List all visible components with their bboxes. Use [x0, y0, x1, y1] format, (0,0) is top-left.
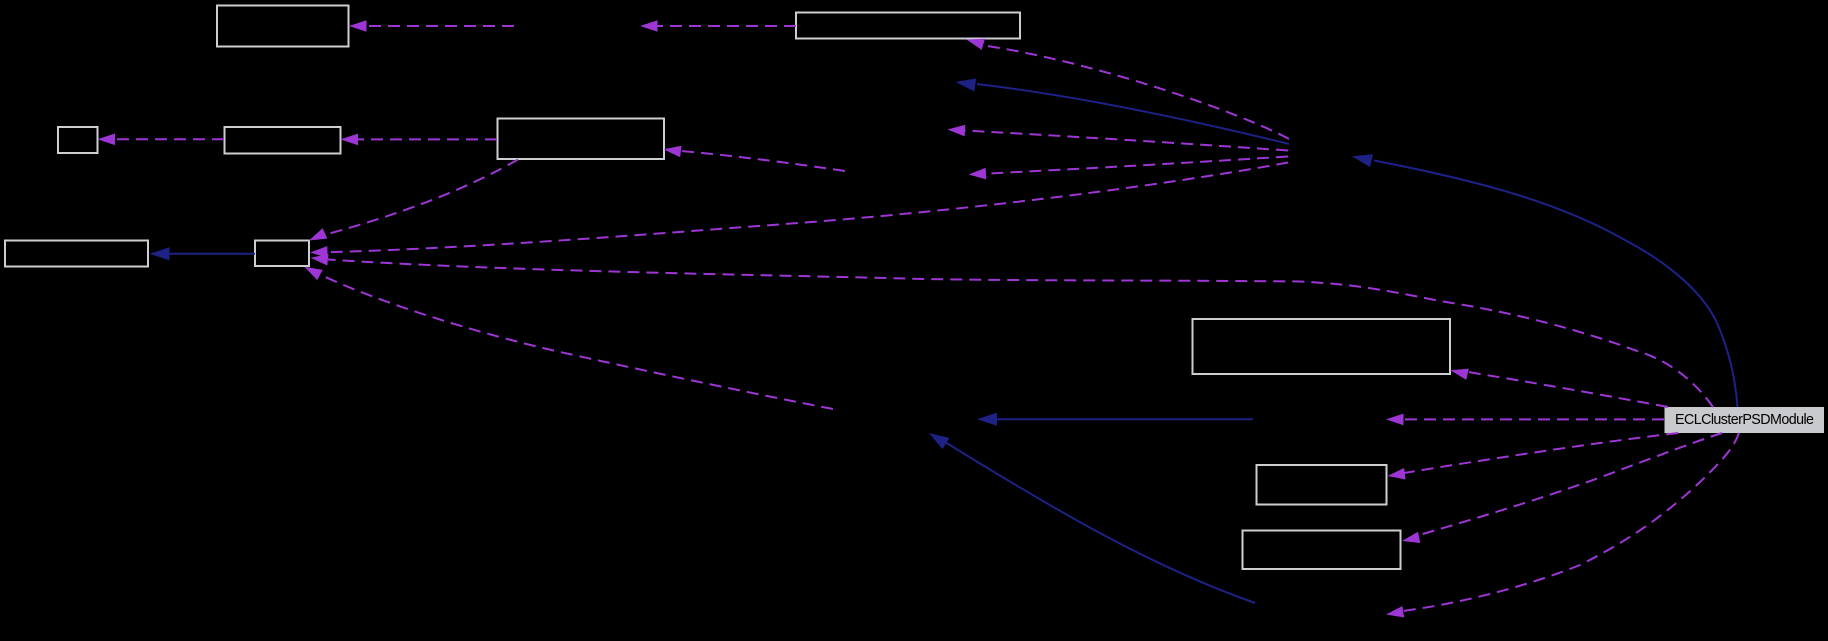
- edge b4: invisible node N7 -> invisible node N6 (solid inheritance): [977, 413, 1253, 426]
- edge p6: invisible node N2 -> node E (dashed usage): [965, 34, 1289, 139]
- edge p4: node D -> node C (dashed usage): [341, 134, 498, 146]
- edge p8: invisible node N2 -> invisible node N1 (dashed usage): [968, 157, 1288, 181]
- edge p16: node ECLClusterPSDModule -> node J (dashed usage): [1401, 433, 1722, 547]
- edge p5: invisible node N1 -> node D (dashed usage): [663, 144, 845, 171]
- edge a10: invisible node N2 -> node G (dashed usage): [310, 163, 1288, 259]
- edge a11: node ECLClusterPSDModule -> node G (dashed usage): [310, 252, 1713, 407]
- edge p13: node ECLClusterPSDModule -> node H (dashed usage): [1449, 365, 1668, 407]
- edge p2: node E -> invisible node N4 (dashed usage): [640, 20, 796, 32]
- node H (3-line class box): [1193, 319, 1451, 374]
- edge b3: node G -> node F (solid inheritance): [150, 247, 256, 260]
- node A (top-left 2-line class box): [217, 6, 349, 47]
- node D (2-line class box): [498, 119, 665, 160]
- node ECLClusterPSDModule (current node, grey filled): [1665, 407, 1825, 433]
- edge a12: invisible node N6 -> node G (dashed usage): [302, 262, 833, 409]
- edge b2: invisible node N2 -> invisible node N3 (solid inheritance): [955, 75, 1289, 144]
- node J (2-line class box): [1243, 531, 1401, 570]
- node C (1-line class box): [225, 127, 341, 154]
- node B (small 1-line class box): [58, 127, 98, 153]
- svg-text:ECLClusterPSDModule: ECLClusterPSDModule: [1675, 412, 1814, 428]
- node F (left 1-line class box): [5, 241, 148, 267]
- edge p3: node C -> node B (dashed usage): [98, 134, 225, 146]
- node E (top 1-line class box): [796, 13, 1020, 39]
- edge p15: node ECLClusterPSDModule -> node I (dashed usage): [1387, 433, 1678, 482]
- edge a9: node D -> node G (dashed usage): [307, 160, 518, 246]
- edge p17: node ECLClusterPSDModule -> invisible node N8 (dashed usage): [1385, 433, 1739, 620]
- edge b5: invisible node N8 -> invisible node N6 (solid inheritance): [926, 427, 1255, 603]
- edge p14: node ECLClusterPSDModule -> invisible node N7 (dashed usage): [1386, 414, 1664, 426]
- edge p1: invisible node N4 -> node A (dashed usage): [349, 20, 514, 32]
- edge p7: invisible node N2 -> invisible node N10 (dashed usage): [947, 124, 1288, 151]
- node I (2-line class box): [1257, 465, 1387, 505]
- edge b1: node ECLClusterPSDModule -> invisible node N2 (solid inheritance): [1351, 150, 1738, 407]
- node G (hub 1-line class box): [255, 241, 309, 267]
